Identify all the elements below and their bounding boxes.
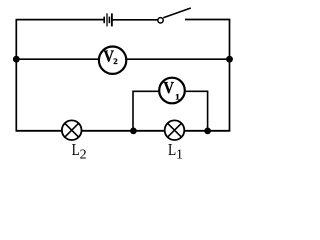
svg-text:1: 1 [175, 92, 179, 102]
switch S [158, 8, 191, 23]
wire top left to battery [16, 19, 105, 21]
wire V1 loop [133, 91, 208, 131]
node bottom right junction [204, 127, 211, 134]
node right junction [226, 56, 233, 63]
svg-text:1: 1 [176, 148, 183, 163]
svg-text:L: L [72, 140, 80, 159]
wire right vertical [229, 20, 231, 132]
wire bottom [16, 130, 231, 132]
wire switch to right [185, 19, 230, 21]
wire battery to switch [112, 19, 158, 21]
wire left vertical [15, 20, 17, 131]
label L2 [72, 140, 87, 163]
lamp L2 [62, 120, 82, 140]
label L1 [168, 140, 183, 163]
svg-text:V: V [163, 78, 174, 97]
voltmeter V1 [159, 78, 185, 104]
svg-text:2: 2 [80, 148, 87, 163]
node left junction [13, 56, 20, 63]
svg-text:L: L [168, 140, 176, 159]
lamp L1 [165, 120, 185, 140]
wire V2 row right [125, 58, 230, 60]
node bottom left junction [130, 127, 137, 134]
voltmeter V2 [99, 47, 126, 74]
wire V2 row left [16, 58, 100, 60]
battery B [104, 13, 112, 26]
svg-text:2: 2 [113, 56, 118, 66]
